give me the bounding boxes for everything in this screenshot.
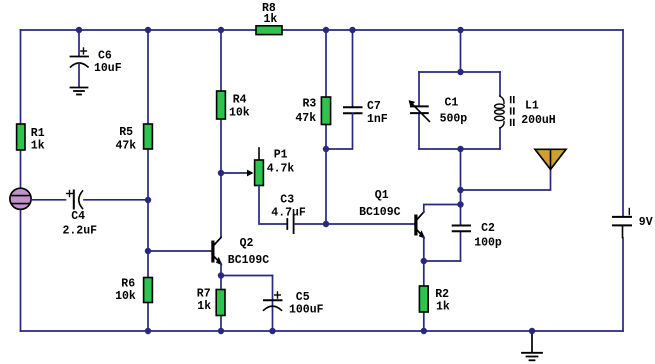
resistor R1 bbox=[17, 124, 25, 150]
node C3 base Q1 bbox=[323, 221, 329, 227]
svg-text:C7: C7 bbox=[367, 100, 381, 113]
wire bottom rail bbox=[21, 330, 624, 332]
node bottom R7 bbox=[218, 328, 224, 334]
wire C7 branch bbox=[352, 30, 354, 107]
wire tank bottom bbox=[419, 148, 500, 150]
node wiper bbox=[218, 170, 224, 176]
wire mic to C4 bbox=[31, 199, 65, 201]
antenna AE1 bbox=[535, 149, 566, 169]
svg-text:L1: L1 bbox=[525, 100, 539, 113]
node R3 C7 bbox=[323, 146, 329, 152]
transistor Q2 bbox=[211, 238, 222, 266]
svg-text:R7: R7 bbox=[197, 288, 211, 301]
wire Q2 emitter bbox=[220, 264, 222, 332]
svg-text:10uF: 10uF bbox=[94, 62, 122, 75]
svg-text:C6: C6 bbox=[98, 50, 112, 63]
svg-text:Q2: Q2 bbox=[240, 237, 254, 250]
wire right rail lower (battery bottom) bbox=[622, 238, 624, 331]
wire top rail bbox=[21, 29, 257, 31]
svg-text:1k: 1k bbox=[264, 13, 278, 26]
capacitor C2 bbox=[453, 226, 470, 232]
svg-text:2.2uF: 2.2uF bbox=[63, 224, 98, 237]
svg-text:R5: R5 bbox=[119, 126, 133, 139]
svg-text:C2: C2 bbox=[481, 222, 495, 235]
resistor R5 bbox=[144, 124, 153, 149]
wire antenna horizontal bbox=[461, 168, 551, 190]
node bottom C5 bbox=[269, 328, 275, 334]
svg-text:1k: 1k bbox=[197, 300, 211, 313]
wire R4 branch bbox=[220, 30, 222, 237]
battery B1 bbox=[613, 209, 631, 238]
capacitor C4 bbox=[67, 191, 83, 209]
capacitor C7 bbox=[344, 107, 362, 113]
wire tank feed bbox=[460, 30, 462, 72]
node top R3 bbox=[323, 27, 329, 33]
resistor R7 bbox=[216, 290, 225, 316]
svg-text:100p: 100p bbox=[474, 237, 502, 250]
resistor R4 bbox=[217, 91, 226, 119]
svg-text:Q1: Q1 bbox=[375, 189, 389, 202]
microphone MIC1 bbox=[10, 188, 31, 209]
wire C5 branch bbox=[272, 276, 274, 332]
wire Q1 emitter bbox=[423, 237, 425, 331]
wire L1 leads bbox=[499, 72, 501, 96]
resistor R8 bbox=[256, 26, 282, 35]
svg-text:P1: P1 bbox=[274, 149, 288, 162]
capacitor C3 bbox=[287, 215, 293, 233]
variable capacitor C1 bbox=[409, 100, 430, 121]
svg-text:47k: 47k bbox=[295, 112, 316, 125]
wire C2 branch bbox=[460, 205, 462, 226]
node Q1 emitter bbox=[421, 258, 427, 264]
node bottom R6 bbox=[145, 328, 151, 334]
wire P1 to C3 bbox=[259, 186, 287, 225]
wire C1 leads bbox=[418, 72, 420, 106]
svg-text:10k: 10k bbox=[115, 290, 136, 303]
svg-text:BC109C: BC109C bbox=[359, 206, 401, 219]
capacitor C5 bbox=[264, 292, 282, 310]
inductor L1 core bbox=[511, 97, 514, 127]
node antenna bbox=[457, 187, 463, 193]
wire P1 wiper bbox=[221, 172, 248, 174]
ground (bottom) bbox=[522, 331, 542, 360]
node top R4 bbox=[218, 27, 224, 33]
wire Q1 base bbox=[326, 223, 414, 225]
svg-text:10k: 10k bbox=[229, 106, 250, 119]
wire right rail upper (battery top) bbox=[622, 30, 624, 216]
svg-text:R2: R2 bbox=[435, 288, 449, 301]
svg-text:R6: R6 bbox=[121, 278, 135, 291]
node tank top bbox=[457, 69, 463, 75]
svg-text:1k: 1k bbox=[436, 301, 450, 314]
svg-text:47k: 47k bbox=[116, 139, 137, 152]
node top R5 bbox=[145, 27, 151, 33]
potentiometer P1 bbox=[247, 148, 263, 186]
wire C3 to node bbox=[295, 223, 327, 225]
wire R5 branch bbox=[147, 30, 149, 331]
node C4 bbox=[145, 197, 151, 203]
resistor R6 bbox=[144, 278, 153, 303]
node Q2 emitter bbox=[218, 272, 224, 278]
svg-text:9V: 9V bbox=[639, 216, 653, 229]
wire C6 branch bbox=[78, 30, 80, 56]
svg-text:200uH: 200uH bbox=[521, 114, 556, 127]
ground (C6) bbox=[71, 88, 88, 95]
svg-text:4.7k: 4.7k bbox=[267, 163, 295, 176]
svg-text:C3: C3 bbox=[280, 194, 294, 207]
node top tank bbox=[457, 27, 463, 33]
svg-text:C1: C1 bbox=[445, 97, 459, 110]
svg-text:500p: 500p bbox=[440, 113, 468, 126]
svg-text:C4: C4 bbox=[71, 210, 85, 223]
svg-text:1nF: 1nF bbox=[367, 113, 388, 126]
wire C7 to R3 node bbox=[326, 113, 353, 149]
wire top rail right of R8 bbox=[282, 29, 623, 31]
wire base Q2 bbox=[148, 250, 211, 252]
svg-text:100uF: 100uF bbox=[289, 303, 324, 316]
resistor R3 bbox=[321, 97, 330, 125]
inductor L1 bbox=[495, 96, 505, 128]
svg-text:C5: C5 bbox=[296, 291, 310, 304]
wire left rail bbox=[20, 30, 22, 331]
capacitor C6 bbox=[71, 48, 89, 67]
svg-text:R1: R1 bbox=[31, 127, 45, 140]
wire Q1 collector bbox=[424, 205, 461, 213]
transistor Q1 bbox=[414, 212, 425, 239]
wire emitter to C2 bbox=[424, 260, 461, 262]
node top C6 bbox=[76, 27, 82, 33]
svg-text:1k: 1k bbox=[31, 139, 45, 152]
svg-text:BC109C: BC109C bbox=[228, 254, 270, 267]
svg-text:R3: R3 bbox=[303, 98, 317, 111]
wire C4 to node bbox=[84, 199, 148, 201]
node tank bottom bbox=[457, 146, 463, 152]
node top C7 bbox=[349, 27, 355, 33]
wire tank to antenna node bbox=[460, 149, 462, 205]
svg-text:R4: R4 bbox=[233, 94, 247, 107]
wire C6 to ground bbox=[78, 63, 80, 87]
wire tank top bbox=[419, 71, 500, 73]
resistor R2 bbox=[419, 286, 428, 312]
node bottom ground bbox=[529, 328, 535, 334]
wire R3 branch bbox=[325, 30, 327, 224]
node base Q2 bbox=[145, 248, 151, 254]
node collector Q1 bbox=[457, 201, 463, 207]
svg-text:4.7uF: 4.7uF bbox=[271, 207, 306, 220]
wire Q2 emitter to C5 bbox=[221, 275, 273, 277]
node bottom R2 bbox=[421, 328, 427, 334]
